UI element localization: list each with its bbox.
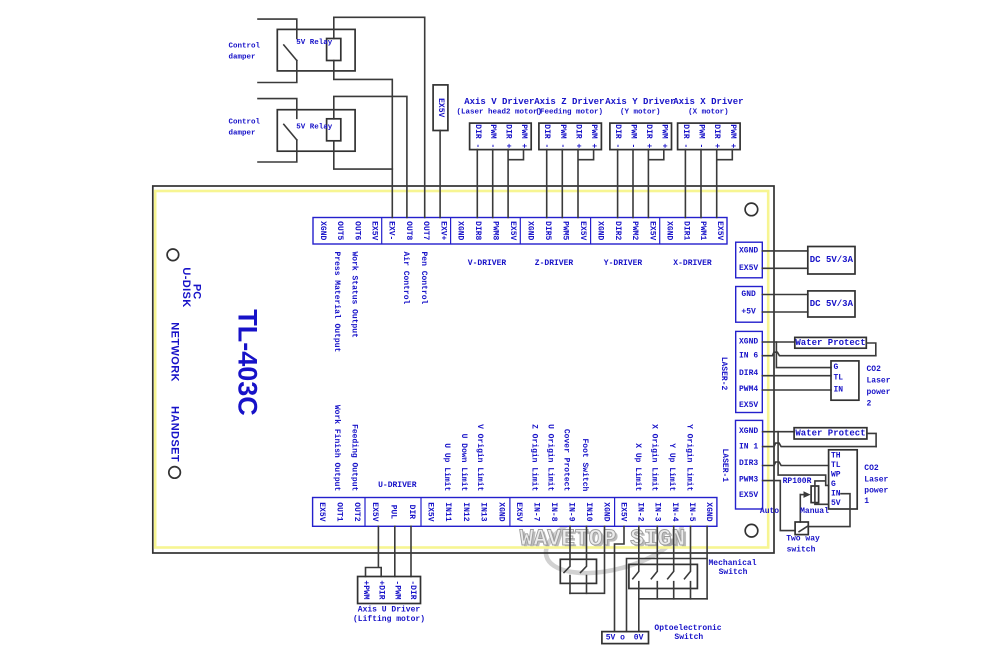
wire Axis Y PWM- to board [632,150,634,218]
pin IN (CO2-2) [834,385,844,394]
svg-text:V Origin Limit: V Origin Limit [475,424,484,491]
pin XGND (top row x=321.6) [318,221,327,240]
svg-text:Axis V Driver: Axis V Driver [464,97,534,107]
label 5V Relay (K1) [296,39,333,47]
svg-text:Work Finish Output: Work Finish Output [332,405,341,492]
pin IN-9 (bottom row x=571.0) [567,502,576,521]
svg-text:Y Up Limit: Y Up Limit [667,443,676,491]
svg-text:Foot Switch: Foot Switch [580,438,589,491]
label Foot Switch [580,438,589,491]
pin PWM - (Axis V) [488,124,497,148]
svg-text:Mechanical: Mechanical [708,559,756,568]
svg-text:+DIR: +DIR [377,580,386,599]
pin G (CO2-1) [831,480,836,489]
two way switch blade [799,526,808,532]
pin G (CO2-2) [834,363,839,372]
label HANDSET [168,406,180,462]
pin TH (CO2-1) [831,452,841,461]
svg-text:V-DRIVER: V-DRIVER [468,259,507,268]
svg-text:DIR -: DIR - [681,124,690,148]
pin DIR (bottom row x=411.7) [407,505,416,520]
label Control damper (K2) [229,119,261,138]
mounting hole top-right [745,203,758,216]
svg-text:EX5V: EX5V [739,491,758,500]
svg-text:PC: PC [191,284,203,299]
svg-text:EX5V: EX5V [739,264,758,273]
label Y Origin Limit [685,424,694,491]
svg-text:XGND: XGND [739,427,758,436]
svg-text:PWM -: PWM - [697,124,706,148]
svg-text:5V: 5V [606,633,616,642]
svg-text:Control: Control [229,42,261,50]
svg-text:X-DRIVER: X-DRIVER [673,259,712,268]
pin EX5V (top row x=718.6) [715,221,724,240]
wire Axis X DIR- to board [684,150,686,218]
svg-text:DC 5V/3A: DC 5V/3A [810,255,854,265]
relay K2 switch blade [284,124,297,139]
svg-text:XGND: XGND [601,502,610,521]
pin DIR + (Axis Y) [644,124,653,148]
label Two way switch [786,534,820,554]
EX5V source box [433,85,448,131]
svg-text:Z Origin Limit: Z Origin Limit [530,424,539,491]
svg-text:damper: damper [229,53,256,61]
svg-text:U Down Limit: U Down Limit [459,434,468,492]
pin XGND (bottom row x=708.4) [704,502,713,521]
svg-text:IN12: IN12 [461,502,470,521]
pin WP (CO2-1) [831,471,841,480]
svg-text:0V: 0V [634,633,644,642]
label LASER-2 [719,357,728,391]
pin TL (CO2-1) [831,461,841,470]
svg-text:NETWORK: NETWORK [168,322,180,382]
pin DIR4 (LASER-2) [739,369,758,378]
svg-text:G: G [834,363,839,372]
mechanical switch S2 box (4-pole) [629,564,698,588]
pin TL (CO2-2) [834,373,844,382]
svg-text:EX5V: EX5V [508,221,517,240]
label Press Material Output [332,252,341,353]
pin PUL (bottom row x=393.0) [388,505,397,520]
label Y-DRIVER [604,259,643,268]
svg-text:Y-DRIVER: Y-DRIVER [604,259,643,268]
pin DIR3 (LASER-1) [739,459,758,468]
svg-text:XGND: XGND [525,221,534,240]
wire K1 coil- to EXV- [334,61,393,218]
relay K1 switch blade [284,45,297,61]
pin PWM4 (LASER-2) [739,385,758,394]
wire K2 coil+ to OUT8 [334,96,407,217]
wire Axis X DIR+/PWM+ tie to EX5V [717,150,733,218]
connector Axis Z Driver box [539,123,602,150]
label 5V Relay (K2) [296,123,333,131]
svg-text:Switch: Switch [719,568,748,577]
svg-text:EX5V: EX5V [647,221,656,240]
svg-text:Auto: Auto [760,507,779,516]
svg-text:XGND: XGND [739,246,758,255]
label Cover Protect [562,429,571,492]
wire K1 coil+ to OUT7 [334,17,425,217]
svg-text:DIR1: DIR1 [681,221,690,240]
label (Lifting motor) [353,615,425,624]
pin EXV+ (top row x=442.0) [438,221,447,240]
svg-text:G: G [831,480,836,489]
wire WP1 return loop to IN1 [867,433,876,446]
svg-text:Work Status Output: Work Status Output [349,252,358,339]
svg-text:PWM -: PWM - [558,124,567,148]
svg-text:Pen Control: Pen Control [419,252,428,305]
svg-text:DIR4: DIR4 [739,369,758,378]
relay K2 contact wire lower [258,140,297,162]
svg-text:XGND: XGND [704,502,713,521]
svg-text:IN-3: IN-3 [653,502,662,521]
svg-text:PWM5: PWM5 [561,221,570,240]
wire +5V to DC supply 2 [762,311,808,313]
svg-text:IN: IN [834,385,844,394]
pin PWM + (Axis Y) [659,124,668,148]
svg-text:IN-8: IN-8 [549,502,558,521]
svg-text:IN-9: IN-9 [567,502,576,521]
pin DIR - (Axis Z) [542,124,551,148]
pin PWM - (Axis Y) [629,124,638,148]
svg-text:Water Protect: Water Protect [795,338,865,348]
svg-text:1: 1 [864,497,869,506]
label U-DRIVER [378,481,417,490]
wire DIR4 to CO2-2 TL [762,375,831,377]
svg-text:OUT1: OUT1 [334,502,343,521]
svg-text:U Up Limit: U Up Limit [442,443,451,491]
controller board TL-403C outline [153,186,774,553]
connector J-power1 XGND/EX5V [736,242,763,278]
wire Axis Z DIR- to board [546,150,548,218]
pin OUT1 (bottom row x=338.8) [334,502,343,521]
svg-text:DIR +: DIR + [712,124,721,148]
pin +DIR (Axis U) [377,580,386,599]
wire Axis V DIR- to board [476,150,478,218]
potentiometer RP100R wiper arrow [800,491,810,498]
svg-text:EX5V: EX5V [514,502,523,521]
svg-text:HANDSET: HANDSET [168,406,180,462]
svg-text:IN 6: IN 6 [739,352,758,361]
svg-text:U-DRIVER: U-DRIVER [378,481,417,490]
pin EX5V (top row x=651.1) [647,221,656,240]
pin o (opto) [620,633,625,642]
svg-text:IN: IN [831,490,841,499]
pin OUT7 (top row x=424.8) [421,221,430,240]
svg-text:OUT8: OUT8 [404,221,413,240]
svg-text:Control: Control [229,119,261,127]
pin XGND (top row x=459.3) [456,221,465,240]
wire PUL to U-driver -PWM [394,526,396,576]
svg-text:Press Material Output: Press Material Output [332,252,341,353]
switch S2 pole 1 [633,526,639,599]
svg-text:PWM +: PWM + [519,124,528,148]
wire S2 common bus [639,598,707,600]
svg-text:Axis Z Driver: Axis Z Driver [534,97,604,107]
svg-text:Y Origin Limit: Y Origin Limit [685,424,694,491]
wire Axis Z DIR+/PWM+ tie to EX5V [578,150,594,218]
watermark text WAVETOP SIGN [520,526,688,554]
potentiometer RP100R body [811,486,819,503]
wire GND to DC supply 2 [762,294,808,296]
pin IN13 (bottom row x=483.2) [479,502,488,521]
label Air Control [401,252,410,305]
svg-text:PWM -: PWM - [629,124,638,148]
svg-text:TL-403C: TL-403C [232,309,262,416]
svg-text:XGND: XGND [596,221,605,240]
bottom terminal row [313,498,717,527]
wire WP2 return loop to IN6 [866,343,876,356]
svg-text:IN 1: IN 1 [739,443,758,452]
pin PWM1 (top row x=701.8) [698,221,707,240]
label LASER-1 [720,448,729,482]
wire XGND branch to CO2-1 WP/G [778,432,829,486]
wire Axis V PWM- to board [492,150,494,218]
label V-DRIVER [468,259,507,268]
svg-text:EXV-: EXV- [387,221,396,240]
svg-text:EX5V: EX5V [425,502,434,521]
label DC 5V/3A (PS2) [810,299,854,309]
CO2 laser PSU 2 box [831,361,859,400]
svg-text:PWM -: PWM - [488,124,497,148]
connector LASER-1 [736,420,763,509]
pin DIR + (Axis Z) [574,124,583,148]
wire S1 common bus to XGND [570,526,605,593]
svg-text:GND: GND [741,290,756,299]
pin DIR - (Axis X) [681,124,690,148]
svg-text:damper: damper [229,130,256,138]
wire EX5V box to EXV+ [439,131,441,218]
pin IN11 (bottom row x=447.7) [443,502,452,521]
pin OUT6 (top row x=355.9) [352,221,361,240]
pin DIR1 (top row x=684.9) [681,221,690,240]
label Y Up Limit [667,443,676,491]
pin EX5V (bottom row x=321.3) [317,502,326,521]
pin PWM + (Axis V) [519,124,528,148]
label Axis Z Driver [534,97,604,107]
power supply PS2 box [808,291,855,317]
connector Axis X Driver box [678,123,741,150]
pin IN12 (bottom row x=465.4) [461,502,470,521]
pin XGND (bottom row x=501.0) [496,502,505,521]
label Water Protect (WP2) [795,338,865,348]
svg-text:IN11: IN11 [443,502,452,521]
svg-text:IN10: IN10 [584,502,593,521]
pin IN (CO2-1) [831,490,841,499]
pin EX5V (LASER-2) [739,401,758,410]
pin DIR + (Axis X) [712,124,721,148]
pin IN-3 (bottom row x=657.2) [653,502,662,521]
label RP100R [783,477,812,486]
svg-text:5V: 5V [831,499,841,508]
pin DIR - (Axis V) [473,124,482,148]
switch S2 pole 4 [685,526,691,599]
wire two way switch to CO2-1 IN [808,494,850,527]
label Auto [760,507,779,516]
label (Laser head2 motor) [457,109,543,117]
relay K2 coil [327,119,341,141]
svg-text:OUT2: OUT2 [352,502,361,521]
pin GND (J-power2) [741,290,756,299]
relay K1 coil [327,39,341,61]
pin IN-5 (bottom row x=691.3) [687,502,696,521]
pin 5V (opto) [606,633,616,642]
label TL-403C [232,309,262,416]
pin XGND (top row x=668.1) [664,221,673,240]
pin IN-2 (bottom row x=640.2) [636,502,645,521]
pin +PWM (Axis U) [361,580,370,599]
svg-text:Optoelectronic: Optoelectronic [654,624,721,633]
pin -DIR (Axis U) [408,580,417,599]
label DC 5V/3A (PS1) [810,255,854,265]
label U Origin Limit [546,424,555,491]
label Axis Y Driver [605,97,675,107]
label (Y motor) [620,109,661,117]
mounting hole bottom-left [169,467,181,479]
wire Axis Y DIR+/PWM+ tie to EX5V [648,150,663,218]
svg-text:DIR5: DIR5 [543,221,552,240]
label NETWORK [168,322,180,382]
svg-text:EX5V: EX5V [739,401,758,410]
svg-text:Feeding Output: Feeding Output [349,424,358,491]
svg-text:2: 2 [867,400,872,409]
connector Axis U Driver box [358,577,421,604]
pin EX5V (top row x=373.1) [369,221,378,240]
svg-text:IN-4: IN-4 [670,502,679,521]
label Z-DRIVER [535,259,574,268]
svg-text:Cover Protect: Cover Protect [562,429,571,492]
svg-text:EX5V: EX5V [436,98,445,117]
svg-text:DIR8: DIR8 [473,221,482,240]
mechanical switch S1 box (2-pole) [560,559,596,583]
wire K2 coil- joins EXV- net [334,141,393,169]
svg-text:XGND: XGND [664,221,673,240]
svg-text:XGND: XGND [496,502,505,521]
svg-text:Water Protect: Water Protect [795,428,865,438]
svg-text:CO2: CO2 [867,365,882,374]
svg-text:Manual: Manual [800,507,829,516]
svg-text:-DIR: -DIR [408,580,417,599]
pin OUT8 (top row x=407.5) [404,221,413,240]
pin PWM + (Axis X) [728,124,737,148]
label V Origin Limit [475,424,484,491]
svg-text:OUT7: OUT7 [421,221,430,240]
wire S2 bus to opto 0V [638,599,640,632]
label Water Protect (WP1) [795,428,865,438]
pin +5V (J-power2) [741,308,756,317]
label U Down Limit [459,434,468,492]
wire Axis X PWM- to board [700,150,702,218]
label X Origin Limit [649,424,658,491]
wire XGND down to S2 bus [706,526,708,599]
label PC [191,284,203,299]
pin IN 6 (LASER-2) [739,352,758,361]
pin XGND (top row x=599.2) [596,221,605,240]
svg-text:(Feeding motor): (Feeding motor) [536,109,604,117]
pin XGND (LASER-1) [739,427,758,436]
pin IN-7 (bottom row x=536.1) [532,502,541,521]
relay K1 contact wire lower [258,61,297,83]
switch S2 pole 2 [651,526,657,599]
svg-text:switch: switch [787,545,816,554]
svg-text:power: power [864,487,888,496]
label Manual [800,507,829,516]
svg-text:EX5V: EX5V [370,502,379,521]
svg-text:OUT6: OUT6 [352,221,361,240]
switch S1 pole 2 [581,526,587,593]
label CO2 Laser power 2 [867,365,891,409]
svg-text:PWM +: PWM + [659,124,668,148]
pin 5V (CO2-1) [831,499,841,508]
svg-text:DIR: DIR [407,505,416,520]
svg-text:Air Control: Air Control [401,252,410,305]
svg-text:DIR +: DIR + [504,124,513,148]
svg-text:EX5V: EX5V [317,502,326,521]
svg-text:EX5V: EX5V [369,221,378,240]
svg-text:DIR -: DIR - [613,124,622,148]
relay K1 box [277,29,355,71]
svg-text:PWM +: PWM + [589,124,598,148]
pin XGND (top row x=529.1) [525,221,534,240]
label Z Origin Limit [530,424,539,491]
relay K1 contact wire upper [258,19,297,38]
pin EXV- (top row x=390.3) [387,221,396,240]
wire LASER-2 XGND to water protect [762,341,795,343]
svg-text:(X motor): (X motor) [688,109,729,117]
svg-text:DIR +: DIR + [574,124,583,148]
svg-text:PWM2: PWM2 [630,221,639,240]
label Axis X Driver [673,97,743,107]
connector J-power2 GND/+5V [736,287,763,323]
mounting hole bottom-right [745,524,758,537]
svg-text:IN-7: IN-7 [532,502,541,521]
relay K2 contact wire upper [258,99,297,119]
pin EX5V (bottom row x=429.9) [425,502,434,521]
connector Axis V Driver box [470,123,532,150]
svg-text:EX5V: EX5V [619,502,628,521]
svg-text:PWM3: PWM3 [739,476,758,485]
power supply PS1 box [808,247,855,275]
svg-text:TL: TL [834,373,844,382]
wire EX5V to U-driver +PWM/+DIR [366,526,382,576]
relay K2 box [277,110,355,152]
top terminal row [313,218,727,245]
pin EX5V (top row x=511.6) [508,221,517,240]
pin DIR + (Axis V) [504,124,513,148]
svg-text:IN13: IN13 [479,502,488,521]
pin EX5V (LASER-1) [739,491,758,500]
wire Axis Y DIR- to board [617,150,619,218]
wire EX5V to DC supply 1 [762,267,808,269]
CO2 laser PSU 1 box [829,450,858,509]
svg-text:EX5V: EX5V [578,221,587,240]
wire XGND to DC supply 1 [762,250,808,252]
pin PWM - (Axis Z) [558,124,567,148]
pin PWM3 (LASER-1) [739,476,758,485]
pin PWM - (Axis X) [697,124,706,148]
pin 0V (opto) [634,633,644,642]
label (X motor) [688,109,729,117]
pin PWM8 (top row x=494.2) [491,221,500,240]
svg-text:DC 5V/3A: DC 5V/3A [810,299,854,309]
svg-text:XGND: XGND [318,221,327,240]
svg-text:Z-DRIVER: Z-DRIVER [535,259,574,268]
svg-text:OUT5: OUT5 [335,221,344,240]
svg-text:(Lifting motor): (Lifting motor) [353,615,425,624]
svg-text:DIR -: DIR - [542,124,551,148]
pin EX5V (top row x=581.8) [578,221,587,240]
svg-text:U-DISK: U-DISK [180,267,192,307]
